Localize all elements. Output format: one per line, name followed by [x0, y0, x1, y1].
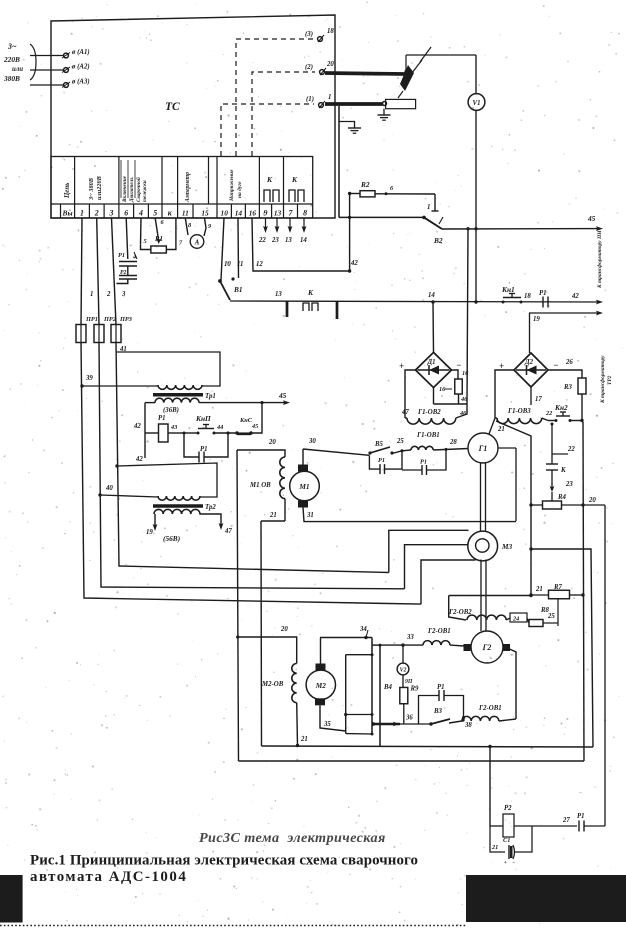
wire 40 to Tr2 primary: [100, 495, 158, 497]
output terminal (2) 20: [305, 61, 334, 75]
svg-text:Тр1: Тр1: [205, 393, 216, 400]
svg-text:20: 20: [280, 626, 288, 633]
M3 right wire to frame: [529, 547, 593, 747]
svg-text:30: 30: [308, 438, 316, 445]
wire 45 to transformer: [442, 214, 603, 231]
resistor R9: [400, 675, 419, 724]
wire 22 stub: [551, 423, 576, 455]
svg-text:21: 21: [300, 736, 308, 743]
ground branch from workpiece cable: [339, 106, 361, 217]
wire 42 riser to R2: [348, 192, 359, 273]
wire 11 from pin 14: [231, 218, 243, 281]
svg-text:22: 22: [545, 410, 552, 417]
svg-text:Рис.1 Принципиальная электриче: Рис.1 Принципиальная электрическая схема…: [30, 853, 418, 869]
svg-text:27: 27: [562, 817, 570, 824]
pushbutton Kn1: [501, 285, 531, 304]
wire 31 from M1 to G1 loop: [303, 508, 516, 522]
motor M3: [468, 531, 513, 561]
connector K symbol over pins 9-13: [264, 175, 279, 202]
black censor block right: [466, 875, 626, 922]
switch B3: [400, 708, 472, 729]
resistor R1 block: [141, 218, 184, 253]
wire R3 to Kn2 node: [581, 394, 583, 421]
svg-text:R9: R9: [410, 686, 420, 693]
connector K in control line: [303, 288, 318, 311]
resistor R7: [531, 584, 583, 599]
wire 39 to Tr1 primary: [82, 385, 158, 387]
printed caption line 1: [30, 853, 418, 869]
svg-text:С1: С1: [503, 837, 510, 844]
shunt box 24: [510, 613, 527, 623]
wire phase 2 lower: [99, 342, 405, 589]
wire1 drop to G2-OV2: [449, 596, 466, 621]
svg-text:45: 45: [278, 391, 287, 400]
svg-text:15: 15: [201, 209, 209, 218]
field winding G2-OV1 lower: [449, 705, 516, 723]
svg-text:ø (А3): ø (А3): [71, 79, 90, 86]
wire 19 line with arrow: [529, 311, 603, 323]
relay contact P1 bypass of G1-OV1: [402, 449, 446, 475]
relay contact P1 bypass of B5: [369, 451, 402, 474]
generator G1: [468, 433, 498, 463]
switch B1: [218, 279, 242, 300]
transformer Tr1 primary: [158, 385, 202, 389]
switch B4 stub 2: [344, 713, 373, 716]
terminal strip rotated label: Амперметр: [185, 172, 191, 203]
svg-text:Кн1: Кн1: [501, 285, 515, 294]
svg-text:В2: В2: [433, 236, 443, 245]
svg-text:Тр2: Тр2: [205, 504, 216, 511]
printed caption line 2: [30, 869, 187, 885]
svg-text:2: 2: [94, 209, 99, 218]
supply terminal A3: [30, 79, 90, 88]
svg-text:или220В: или220В: [96, 176, 103, 200]
relay coil P1: [145, 415, 184, 442]
terminal strip of TC with numbered pins: [51, 157, 313, 219]
label 56V: [163, 534, 180, 543]
transformer cabinet TC outline: [51, 15, 335, 218]
svg-text:Р1: Р1: [420, 459, 427, 466]
svg-text:Р1: Р1: [200, 446, 208, 453]
generator G2: [464, 631, 511, 663]
welding cable from terminal (1): [325, 102, 383, 106]
wire M2 top: [320, 638, 322, 664]
wire phase 1: [81, 218, 93, 325]
svg-text:ø (А2): ø (А2): [71, 64, 90, 71]
svg-text:38: 38: [464, 722, 472, 729]
svg-text:Амперметр: Амперметр: [185, 172, 191, 203]
wire 20 branch to M2: [236, 626, 297, 664]
svg-text:33: 33: [406, 634, 414, 641]
svg-text:R1: R1: [154, 236, 163, 243]
relay contacts P1 P2 under pin 6: [117, 218, 138, 284]
svg-text:10: 10: [221, 209, 229, 218]
shaft G1-M3: [481, 463, 486, 531]
svg-text:КнП: КнП: [195, 414, 211, 423]
node 14 to rectifier D1: [428, 292, 435, 304]
svg-text:М2: М2: [315, 681, 327, 690]
svg-text:4: 4: [138, 209, 143, 218]
svg-text:3: 3: [109, 209, 114, 218]
svg-text:Д1: Д1: [427, 359, 436, 366]
svg-text:+: +: [504, 860, 507, 866]
fuse PR1: [76, 316, 98, 343]
wire to relay P2: [489, 747, 491, 827]
svg-text:(3): (3): [305, 31, 313, 38]
voltmeter V1: [468, 94, 485, 111]
svg-text:220В: 220В: [3, 55, 20, 64]
svg-text:1: 1: [328, 94, 331, 101]
wire 34 line: [320, 626, 372, 639]
svg-text:К: К: [560, 467, 566, 474]
rectifier bridge D1: [399, 352, 461, 387]
svg-text:21: 21: [535, 586, 543, 593]
rail 20 left vertical: [237, 450, 239, 761]
relay contact P1 in control line: [539, 290, 579, 308]
dashed wire to terminal (3): [236, 39, 314, 156]
svg-text:Рис3С тема электрическая: Рис3С тема электрическая: [199, 830, 386, 846]
svg-text:R2: R2: [360, 180, 370, 189]
svg-text:44: 44: [216, 424, 223, 431]
M3 feed wire A: [389, 530, 469, 572]
node 41 to Tr1: [117, 352, 220, 386]
svg-text:Р1: Р1: [577, 813, 585, 820]
rail x531 vertical: [529, 503, 532, 596]
svg-text:20: 20: [588, 497, 596, 504]
svg-text:Р2: Р2: [120, 270, 127, 276]
Tr1 secondary left lead: [133, 403, 145, 433]
solder bus on G2 control: [372, 715, 413, 727]
electrode with holder: [400, 47, 431, 91]
wire into R4: [551, 492, 553, 501]
svg-text:47: 47: [401, 409, 409, 416]
workpiece plate: [383, 99, 416, 108]
svg-text:8: 8: [303, 209, 307, 218]
svg-text:10: 10: [224, 261, 231, 268]
wire 30 from M1 to B5: [303, 438, 369, 455]
svg-text:25: 25: [547, 613, 555, 620]
svg-text:11: 11: [182, 209, 189, 218]
svg-text:Включение: Включение: [122, 175, 128, 203]
switch B4 pole lines: [372, 638, 393, 747]
svg-text:Р1: Р1: [539, 290, 547, 297]
svg-text:Двигатель: Двигатель: [129, 177, 135, 203]
svg-text:42: 42: [571, 293, 579, 300]
svg-text:6: 6: [124, 209, 128, 218]
svg-text:24: 24: [512, 616, 519, 623]
terminal strip rotated label: Цепь: [64, 183, 71, 199]
wire 42 stub down: [135, 433, 145, 463]
wire M1 top: [302, 449, 304, 465]
resistor R2: [350, 180, 435, 197]
switch B4 stub 1: [346, 653, 374, 656]
wire 19 riser to D2: [529, 313, 531, 353]
wire 46 vertical from line 45: [467, 228, 468, 404]
svg-text:13: 13: [274, 209, 282, 218]
svg-text:Р1: Р1: [378, 457, 385, 464]
rail 21 left vertical: [260, 521, 263, 746]
bus line 21 lower: [262, 736, 594, 748]
resistor R8: [527, 613, 558, 627]
output terminal (3) 18: [305, 28, 334, 42]
transformer Tr1 secondary: [145, 398, 264, 414]
svg-text:ТР2: ТР2: [607, 375, 613, 385]
node 39: [80, 375, 93, 388]
svg-text:14: 14: [428, 292, 435, 299]
svg-text:(36В): (36В): [163, 407, 179, 414]
svg-text:КнС: КнС: [239, 417, 253, 424]
svg-text:тележки: тележки: [142, 180, 148, 202]
wire D1 plus output: [405, 370, 416, 418]
vertical text K transformatoru PN: [596, 230, 603, 289]
svg-text:42: 42: [135, 456, 143, 463]
handwritten figure caption: [199, 830, 386, 846]
svg-text:Г1-ОВ2: Г1-ОВ2: [417, 409, 441, 416]
svg-text:16: 16: [462, 370, 469, 377]
fuse PR3: [111, 316, 132, 343]
shaft M3-G2: [481, 560, 486, 632]
resistor in D1 output: [439, 379, 462, 394]
wire D1 minus output: [452, 370, 470, 379]
wire G2 right loop: [510, 649, 517, 719]
switch B2: [339, 194, 443, 245]
capacitor C1 loop: [490, 826, 532, 866]
svg-text:Сварочной: Сварочной: [135, 177, 142, 202]
svg-text:V1: V1: [473, 100, 481, 107]
transformer Tr2 secondary: [154, 509, 200, 514]
svg-text:19: 19: [146, 529, 153, 536]
svg-text:Цепь: Цепь: [64, 183, 71, 199]
svg-text:380В: 380В: [3, 74, 20, 83]
field winding M2-OV: [261, 664, 298, 746]
M3 feed wire C: [421, 560, 476, 604]
svg-text:18: 18: [524, 293, 531, 300]
self hold contact P1 of KnP: [184, 432, 230, 463]
svg-text:К: К: [307, 288, 314, 297]
wire 21 from G1-OV3 to G1: [489, 418, 531, 505]
svg-text:ПР3: ПР3: [119, 316, 132, 323]
svg-text:К трансформатору: К трансформатору: [599, 355, 606, 404]
svg-text:18: 18: [327, 28, 334, 35]
svg-text:К: К: [266, 175, 273, 184]
svg-text:36: 36: [405, 715, 413, 722]
pushbutton KnP: [183, 414, 224, 435]
svg-text:автомата АДС-1004: автомата АДС-1004: [30, 869, 187, 885]
svg-text:20: 20: [326, 61, 334, 68]
svg-text:11: 11: [237, 261, 243, 268]
svg-text:+: +: [399, 361, 404, 371]
output terminal (1) 1: [306, 94, 331, 108]
wire 35 from M2: [320, 705, 346, 731]
svg-text:14: 14: [235, 209, 243, 218]
terminal strip rotated label: 3~380V or 220V: [88, 176, 103, 201]
voltmeter V2: [397, 645, 409, 675]
pushbutton KnS stop: [235, 417, 258, 435]
svg-text:1: 1: [80, 209, 84, 218]
ammeter A: [185, 218, 212, 248]
svg-text:2: 2: [106, 291, 111, 298]
svg-text:39: 39: [85, 375, 93, 382]
svg-text:R3: R3: [563, 384, 573, 391]
svg-text:9П: 9П: [405, 679, 413, 685]
svg-text:45: 45: [251, 423, 258, 430]
svg-text:40: 40: [105, 485, 113, 492]
svg-text:45: 45: [587, 214, 596, 223]
svg-text:13: 13: [275, 291, 282, 298]
ground at workpiece: [378, 109, 391, 121]
svg-text:43: 43: [170, 424, 177, 431]
svg-text:28: 28: [449, 439, 457, 446]
svg-text:47: 47: [224, 528, 232, 535]
svg-text:Г2: Г2: [482, 643, 492, 652]
svg-text:21: 21: [491, 844, 498, 851]
svg-text:ПР1: ПР1: [85, 316, 98, 323]
svg-text:5: 5: [144, 238, 147, 245]
svg-text:М2-ОВ: М2-ОВ: [261, 681, 284, 688]
svg-text:Г1: Г1: [478, 444, 488, 453]
wire 21 from M1 field: [261, 512, 285, 521]
svg-text:35: 35: [323, 721, 331, 728]
wire resistor to winding: [434, 388, 469, 417]
wire phase 2: [97, 218, 111, 325]
svg-text:Р1: Р1: [118, 252, 125, 259]
junction of V1 wire on control line: [474, 300, 477, 303]
label 3~220V/380V supply: [3, 42, 36, 83]
connector pin stub right: [336, 302, 339, 319]
svg-text:3: 3: [121, 291, 126, 298]
Tr2 secondary lead 19: [146, 514, 157, 536]
wire V1 vertical: [475, 55, 477, 302]
rectifier bridge D2: [499, 353, 573, 387]
svg-text:Р1: Р1: [158, 415, 166, 422]
svg-text:или: или: [12, 66, 23, 73]
svg-text:14: 14: [300, 237, 307, 244]
relay contact P1 box: [419, 684, 466, 724]
B4 link vertical: [345, 655, 347, 734]
wire to KnS: [214, 432, 237, 435]
svg-text:К: К: [291, 175, 298, 184]
Tr1 secondary right lead: [251, 403, 262, 433]
black censor block left: [0, 875, 23, 923]
dashed wire to terminal (2): [252, 72, 315, 156]
wire 10 from pin 10: [221, 218, 231, 280]
wire 17 D2 bottom: [531, 387, 542, 405]
svg-text:Вы: Вы: [62, 209, 73, 218]
svg-text:ТС: ТС: [165, 101, 180, 113]
right rail 20 vertical: [604, 505, 606, 826]
svg-text:ø (А1): ø (А1): [71, 49, 90, 56]
wire from electrode top to voltmeter: [405, 55, 476, 73]
wire 20 corner to M1 field: [237, 439, 285, 457]
svg-text:−: −: [512, 860, 515, 866]
M3 feed wire B: [405, 545, 468, 589]
wire phase 1 lower: [81, 342, 421, 604]
svg-text:34: 34: [359, 626, 367, 633]
motor M1: [290, 465, 320, 508]
fuse PR2: [94, 316, 116, 343]
node on wire3 to Tr2: [115, 463, 217, 497]
svg-text:М1: М1: [298, 482, 309, 491]
arrows below pins 9 13 7 8 with wire numbers 22 23 13 14: [258, 218, 307, 244]
rail from Kn2 down: [581, 422, 584, 761]
switch B5: [368, 441, 393, 455]
svg-text:1: 1: [427, 204, 430, 211]
svg-text:25: 25: [396, 438, 404, 445]
svg-text:(1): (1): [306, 96, 314, 103]
svg-text:Р1: Р1: [437, 684, 445, 691]
field winding G2-OV1 upper: [372, 628, 465, 647]
svg-text:19: 19: [533, 316, 540, 323]
svg-text:Г1-ОВ1: Г1-ОВ1: [416, 432, 440, 439]
svg-text:42: 42: [133, 423, 141, 430]
Tr2 secondary lead 47: [199, 514, 232, 535]
terminal strip rotated label: Напряжение на дуге: [229, 169, 243, 202]
wire from node 14 to D1: [432, 302, 435, 352]
svg-text:−: −: [553, 360, 558, 370]
wire 12 from pin 16: [252, 218, 350, 271]
svg-text:3~: 3~: [7, 42, 17, 51]
field winding G1-OV1: [392, 432, 468, 454]
motor M2: [306, 664, 335, 706]
svg-text:М3: М3: [501, 542, 513, 551]
svg-text:М1 ОВ: М1 ОВ: [249, 482, 271, 489]
svg-text:(56В): (56В): [163, 534, 180, 543]
connector pin stub left: [286, 301, 289, 317]
svg-text:12: 12: [256, 261, 263, 268]
dotted separator line: [0, 925, 466, 927]
svg-text:Кн2: Кн2: [554, 403, 568, 412]
svg-text:ПР2: ПР2: [103, 316, 116, 323]
wire D2 minus output: [548, 370, 582, 378]
transformer Tr1 core: [153, 393, 216, 400]
bus line middle: [239, 760, 585, 762]
wire G1 right to loop: [498, 448, 516, 521]
terminal strip rotated labels: control column: [121, 160, 148, 203]
relay coil P2: [490, 805, 532, 837]
svg-text:Г1-ОВ3: Г1-ОВ3: [507, 408, 531, 415]
wire phase 3 lower: [116, 342, 389, 573]
svg-text:R7: R7: [553, 584, 563, 591]
resistor R4: [531, 494, 585, 509]
connector K symbol over pins 7-8: [289, 175, 304, 202]
wire R8 riser: [540, 599, 558, 619]
svg-text:R4: R4: [557, 494, 567, 501]
svg-text:Р2: Р2: [504, 805, 512, 812]
svg-text:9: 9: [264, 209, 268, 218]
svg-text:21: 21: [269, 512, 277, 519]
svg-text:В5: В5: [374, 441, 384, 448]
control line 13 to connector K: [230, 291, 600, 302]
field winding M1-OV: [249, 457, 285, 521]
svg-text:(2): (2): [305, 64, 313, 71]
svg-text:21: 21: [497, 426, 505, 433]
svg-text:26: 26: [565, 359, 573, 366]
svg-text:А: А: [194, 240, 200, 247]
svg-text:Г2-ОВ2: Г2-ОВ2: [448, 609, 472, 616]
arc line from electrode to workpiece: [398, 91, 403, 98]
svg-text:3~ 380В: 3~ 380В: [88, 178, 95, 201]
svg-text:V2: V2: [400, 668, 407, 674]
transformer Tr2 core: [153, 504, 216, 511]
svg-text:Напряжение: Напряжение: [229, 169, 235, 202]
svg-text:20: 20: [268, 439, 276, 446]
wire 45 arrow from Tr1: [262, 391, 290, 405]
pushbutton Kn2: [548, 403, 584, 422]
svg-text:Г2-ОВ1: Г2-ОВ1: [478, 705, 502, 712]
svg-text:31: 31: [306, 512, 314, 519]
capacitor K: [546, 454, 573, 492]
svg-text:1: 1: [90, 291, 93, 298]
